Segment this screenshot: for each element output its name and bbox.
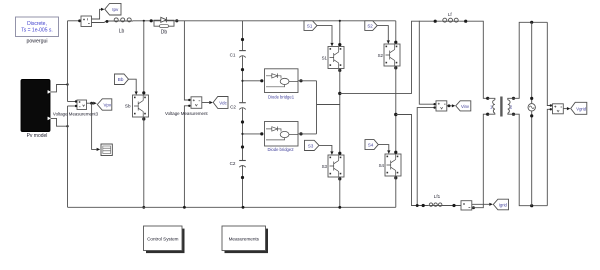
goto tag Vgrid [571,102,587,114]
node PV- junction [66,125,68,127]
wire VM3 output [87,102,94,104]
svg-text:S4: S4 [368,143,374,148]
svg-text:Control System: Control System [147,236,179,241]
wire left leg rail mid [339,69,341,156]
node Db input [150,19,153,22]
node Vinv minus port [433,106,435,108]
node bus dot1 [241,38,244,41]
wire PV+ to left bus [51,85,68,92]
svg-text:S4: S4 [379,163,385,168]
node bus dot2 [241,68,244,71]
from tag S4 [365,140,378,150]
wire S2 tag to gate [377,26,388,41]
wire Vinv minus rail [417,108,434,206]
node Sb rail tee [143,20,145,22]
wire i output to Igrid tag [472,203,490,205]
node DB2 input [260,132,263,135]
node S1 collector [338,43,341,46]
svg-text:S3: S3 [322,164,328,169]
subsystem Measurements [222,226,268,253]
wire Sb collector rail [143,21,145,95]
svg-text:S2: S2 [367,24,373,29]
node Lf in [434,20,437,23]
wire Lb to Db [133,20,154,22]
node S3 emitter [338,177,341,180]
node Igrid out dot [472,206,475,209]
node DB1 stub tee [241,80,243,82]
svg-text:Measurements: Measurements [229,236,260,241]
svg-text:Lf: Lf [448,12,453,17]
wire i output to Ipv tag [92,9,102,19]
from tag Bb [115,74,129,85]
wire bus segment C2-C3 [242,108,244,160]
wire stub to VM3 minus [68,105,78,107]
powergui block [16,17,59,45]
ac source Vgrid [528,22,535,205]
wire S1 tag to gate [317,26,332,43]
svg-text:S1: S1 [322,56,328,61]
svg-text:Lb: Lb [119,29,125,35]
node VM plus [188,99,190,101]
node bus dot3 [241,120,244,123]
node right leg output junction [394,113,397,116]
svg-text:Igrid: Igrid [499,202,508,207]
current measurement Ipv block [81,16,92,27]
wire Bb to Sb gate [129,79,137,91]
igbt S2 [378,44,400,66]
svg-text:C1: C1 [230,52,236,57]
node S4 collector [394,151,397,154]
node left leg at DC- [338,206,341,209]
wire S3 tag to gate [319,145,332,151]
voltage measurement Vdc [165,97,208,116]
node before inductor [106,20,109,23]
svg-text:Db: Db [161,30,168,36]
wire Vdc minus rail [184,106,189,208]
node before Igrid meas [452,204,455,207]
node DB1 input [260,79,263,82]
from tag S2 [365,21,377,31]
svg-text:Vpv: Vpv [104,103,112,108]
subsystem Control System [144,226,185,253]
capacitor C2 [230,103,246,110]
node Sb collector [142,91,145,94]
node grid bottom tee [530,204,533,207]
subsystem Diode bridge2 [265,122,299,153]
inductor Lb [113,18,134,35]
svg-text:Ipv: Ipv [112,7,119,12]
svg-text:S3: S3 [308,143,314,148]
node S1 emitter [338,69,341,72]
voltage measurement VM3 [53,100,99,117]
wire right leg rail bottom [395,176,397,207]
wire Sb emitter rail [143,117,145,207]
wire Vgrid output [563,108,567,110]
node DB2 output [299,132,302,135]
wire Vdc output [202,102,210,104]
svg-text:Diode bridge2: Diode bridge2 [267,147,294,152]
wire DB1 output to clamp rail [298,80,317,82]
wire Lf1 to current measurement [442,205,461,207]
voltage measurement Vgrid [553,104,564,114]
wire bus segment C1-C2 [242,56,244,102]
node PV+ junction [66,83,68,85]
svg-text:Vgrid: Vgrid [576,106,586,111]
wire grid right rail lower [547,109,551,205]
svg-text:Voltage Measurement: Voltage Measurement [165,111,208,116]
node input dot [78,19,81,22]
wire Vinv plus rail [419,21,434,104]
svg-text:Bb: Bb [118,77,124,82]
wire DC+ bus top [174,20,396,22]
svg-text:2: 2 [510,104,513,109]
wire stub to diode bridge1 [243,80,262,82]
wire pass-through to transformer bottom [472,114,488,208]
PV model block [21,80,51,140]
node S3 collector [338,152,341,155]
node Vinv minus at bottom [416,204,419,207]
goto tag Vpv [97,99,112,110]
node Sb at DC- bus [142,206,145,209]
node left leg top tee [339,20,341,22]
svg-text:Vinv: Vinv [461,104,470,109]
node DB1 output [299,79,302,82]
svg-text:Pv model: Pv model [27,133,48,139]
svg-text:Discrete,: Discrete, [27,21,47,27]
inductor Lf1 [428,194,442,206]
wire top from bus corner to current measurement [68,20,82,22]
node S2 collector [394,41,397,44]
wire DB2 output to clamp rail [298,133,317,135]
capacitor C1 [230,51,246,58]
wire bus bottom segment [242,166,244,207]
node DB2 stub tee [241,133,243,135]
igbt Sb [125,95,149,117]
svg-text:Sb: Sb [125,104,131,109]
wire Vinv output [447,105,452,107]
scope block [101,144,112,156]
wire grid right rail upper [547,22,551,105]
node Sb emitter [142,117,145,120]
goto tag Vinv [456,101,471,111]
node bus dot5 [241,176,244,179]
voltage measurement Vinv [436,101,447,111]
wire right leg rail top [395,21,397,44]
node grid top tee [530,21,533,24]
node bus dot4 [241,145,244,148]
wire DC mid bus top segment [242,21,244,51]
capacitor C3 [230,161,246,168]
wire left bus lower segment [67,106,69,207]
svg-text:powergui: powergui [26,39,47,45]
node left leg output junction [338,92,341,95]
goto tag Ipv [105,3,121,15]
from tag S3 [305,140,320,150]
svg-text:S2: S2 [378,53,384,58]
svg-text:Ts = 1e-005 s.: Ts = 1e-005 s. [21,28,53,34]
igbt S1 [322,47,344,69]
wire transformer secondary bottom to grid loop [514,114,548,206]
wire left leg rail top [339,21,341,47]
inductor Lf [442,12,460,22]
wire right leg rail mid [395,66,397,154]
igbt S4 [379,154,401,176]
wire transformer secondary top to grid loop [514,22,548,98]
svg-text:Diode bridge1: Diode bridge1 [268,94,295,99]
wire measurement out to inductor [92,21,113,23]
wire clamp to left leg [317,104,340,106]
wire PV- to left bus [51,118,68,126]
wire inverter output B down [396,115,429,206]
svg-text:C2: C2 [230,104,236,109]
wire stub to diode bridge2 [243,133,262,135]
goto tag Vdc [213,97,228,109]
transformer [486,97,515,117]
node Lf out [464,20,467,23]
wire stub to VM3 plus [68,101,78,103]
node Vinv plus port [433,103,435,105]
wire left leg rail bottom [339,177,341,207]
svg-text:S1: S1 [307,24,313,29]
svg-text:C2: C2 [230,161,236,166]
wire Vdc plus rail [184,21,189,100]
node S2 emitter [394,66,397,69]
wire VM3 to scope [92,103,97,149]
node S4 emitter [394,176,397,179]
node Lf1 in [422,204,425,207]
wire clamp rail [316,81,318,134]
wire S4 tag to gate [378,145,389,151]
svg-text:Lf1: Lf1 [434,194,441,199]
node Vgrid minus port [550,108,552,110]
node VM minus [188,105,190,107]
wire inverter output A up [340,21,442,93]
from tag S1 [304,21,317,31]
igbt S3 [322,155,344,177]
node Db output [175,19,178,22]
wire DC- bottom bus [68,206,396,208]
goto tag Igrid [493,199,508,210]
wire Lf to transformer [459,21,487,98]
diode Db [154,17,174,35]
svg-text:Vdc: Vdc [219,101,227,106]
subsystem Diode bridge1 [265,69,299,100]
node VM minus at bus [183,206,186,209]
wire left bus upper segment [67,21,69,102]
node bus at DC- [242,206,245,209]
node VM3 branch [90,102,93,105]
node Vgrid plus port [550,104,552,106]
current measurement Igrid [461,201,472,210]
